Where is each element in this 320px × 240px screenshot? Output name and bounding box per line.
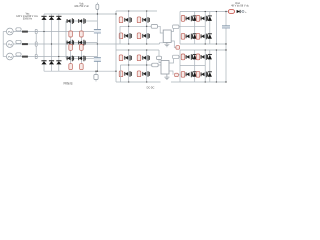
wire phase A line [13,31,97,33]
wire secondary bridge1 mid wire [180,25,205,27]
wire bridge2 mid rail [121,64,152,66]
wire secondary bridge2 left edge [179,50,181,82]
label Vac input text [16,13,38,20]
choke CY2 [35,42,37,46]
node feed top [115,13,116,14]
transistor Q2 [79,18,86,24]
wire PFC left vertical [65,21,67,58]
wire CM choke bus [35,30,37,59]
fuse F1 [16,28,21,32]
wire neutral bus [2,32,4,57]
wire primary bridge1 leg2 [146,11,148,44]
transistor Q4 [79,40,86,46]
wire secondary bridge1 center leg [204,12,206,45]
transistor Q14 [201,34,208,40]
inductor Ls2 [173,55,179,58]
resistor R10 [137,33,141,39]
wire secondary bridge1 right bus [215,12,217,45]
wire secondary bridge1 diode legs [195,12,210,45]
transistor Q8 [143,17,150,23]
resistor R15 [119,55,123,61]
wire T1 secondary taps [171,28,180,47]
ground T2 [164,74,169,80]
transistor Q17 [125,71,132,77]
resistor R2 [80,31,84,37]
node sec1 joints [205,11,218,45]
fuse F2 [16,40,21,44]
wire PFC leg a [70,21,72,70]
wire secondary bridge2 right bus [215,50,217,82]
wire bridge2 bottom rail [116,81,226,83]
transistor Q10 [143,33,150,39]
node sec2 joints [205,49,227,82]
node bridge2 mid joints [128,64,147,65]
transistor Q11 [186,16,193,22]
transistor Q1 [67,18,74,24]
transistor Q15 [125,55,132,61]
node out junctions [225,11,226,45]
diode D6 [56,61,61,65]
node DC+ [97,13,98,14]
wire phase C line [13,56,97,58]
wire secondary bridge1 top rail [180,11,229,13]
capacitor Cb2 [157,50,162,63]
transistor Q19 [186,54,193,60]
svg-text:Filters: Filters [64,82,73,86]
diode D12 [193,54,197,59]
wire DC link bus [96,14,98,71]
transistor Q21 [186,72,193,78]
wire DC feed vertical [115,11,117,82]
diode D1 [41,16,46,20]
resistor R16 [137,55,141,61]
resistor R7 [119,17,123,23]
resistor R9 [119,33,123,39]
node feed bottom [115,71,116,72]
wire secondary bridge1 left edge [179,12,181,45]
wire T1 bottom link [160,43,164,44]
wire secondary bridge2 mid wire [180,65,205,67]
wire rectifier bottom bus [44,70,116,72]
wire phase A stub [3,31,6,33]
wire bridge2 top rail [116,49,226,51]
wire bridge2 mid left drop [120,65,122,82]
diode D3 [56,16,61,20]
diode D11 output [237,10,241,13]
resistor R11 [181,16,185,22]
wire primary bridge2 leg1 [128,50,130,82]
wire phase B stub [3,43,6,45]
svg-text:430-750 V dc: 430-750 V dc [74,5,90,8]
wire T2 secondary taps [169,59,180,75]
resistor R12 [196,16,200,22]
svg-text:+: + [245,10,247,14]
inductor Lr1 [151,25,163,33]
transistor Q5 [67,56,74,62]
wire bridge1 top rail [116,10,157,12]
wire primary bridge1 leg1 [128,11,130,44]
resistor R14 [196,33,200,39]
diode D9 [193,34,197,39]
resistor R5 [69,64,73,70]
capacitor C1 [94,29,101,33]
wire rectifier leg 3 [58,14,60,71]
transistor Q13 [186,34,193,40]
fuse F4 vertical [96,3,99,15]
capacitor Cout [222,26,230,28]
wire rectifier leg 1 [43,14,45,71]
resistor R4 [80,44,84,50]
inductor Lr2 [152,63,161,67]
wire PFC leg b [80,21,82,70]
wire bridge1 mid left drop [119,26,121,44]
diode D4 [41,61,46,65]
resistor Rs2 secondary sense [175,73,179,76]
wire primary bridge2 leg2 [146,50,148,82]
resistor R19 [181,54,185,60]
resistor R3 [69,44,73,50]
resistor R18 [137,71,141,77]
capacitor C2 [94,58,101,62]
fuse F3 [16,53,21,57]
transistor Q6 [79,56,86,62]
svg-text:50/60 Hz: 50/60 Hz [23,18,33,20]
transistor Q16 [143,55,150,61]
diode D13 [208,54,212,59]
ac source G1 [6,28,13,35]
inductor L2 [22,43,28,45]
transistor Q18 [143,71,150,77]
transformer T2 [161,61,169,75]
wire secondary bridge2 center leg [204,50,206,82]
transistor Q20 [201,54,208,60]
wire rectifier top bus [44,13,116,15]
wire output cap branch [225,12,227,83]
ac source G3 [6,53,13,60]
transistor Q22 [201,72,208,78]
diode D14 [193,72,197,77]
inductor Ls1 [173,25,179,28]
resistor R21 [181,71,185,77]
diode D5 [49,61,54,65]
inductor L1 [22,31,28,33]
svg-text:DC-DC: DC-DC [147,87,155,90]
transistor Q3 [67,40,74,46]
node DC- [97,71,98,72]
diode D2 [49,16,54,20]
resistor R22 [196,71,200,77]
diode D7 [193,16,197,21]
choke CY1 [35,29,37,33]
ac source G2 [6,41,13,48]
node output terminal [240,10,247,14]
node phase joints [43,31,59,57]
diode D15 [208,72,212,77]
node bridge1 mid joints [128,26,147,27]
wire PFC row1 [66,20,97,22]
wire rectifier leg 2 [51,14,53,71]
svg-text:48 V dc-58 V dc: 48 V dc-58 V dc [231,5,250,8]
wire Ls1 out [179,26,180,28]
wire phase B line [13,43,97,45]
transistor Q9 [125,33,132,39]
fuse F5 output [228,10,234,14]
label Vdc text [74,2,90,8]
wire bridge1 mid rail [120,25,151,27]
choke CY3 [35,54,37,58]
diode D10 [208,34,212,39]
ground T1 [164,43,169,47]
wire phase C stub [3,56,6,58]
node bridge2 leg joints [128,49,147,82]
wire mid rail y44 [97,43,226,45]
wire secondary bridge2 diode legs [195,50,210,82]
label Vout text [231,2,250,8]
wire PFC row2 [66,42,97,44]
resistor R13 [181,33,185,39]
transformer T1 [163,30,171,43]
transistor Q7 [125,17,132,23]
wire Ls2 out [179,56,180,58]
resistor R6 [80,64,84,70]
resistor NTC [94,71,98,82]
node DC mid [97,43,98,44]
resistor R8 [137,17,141,23]
resistor R20 [196,54,200,60]
transistor Q12 [201,16,208,22]
inductor L3 [22,56,28,58]
resistor R17 [119,71,123,77]
node bridge1 leg joints [128,10,147,44]
resistor Rs1 secondary sense [176,46,180,50]
resistor R1 [69,31,73,37]
wire PFC row3 [66,57,97,59]
diode D8 [208,16,212,21]
